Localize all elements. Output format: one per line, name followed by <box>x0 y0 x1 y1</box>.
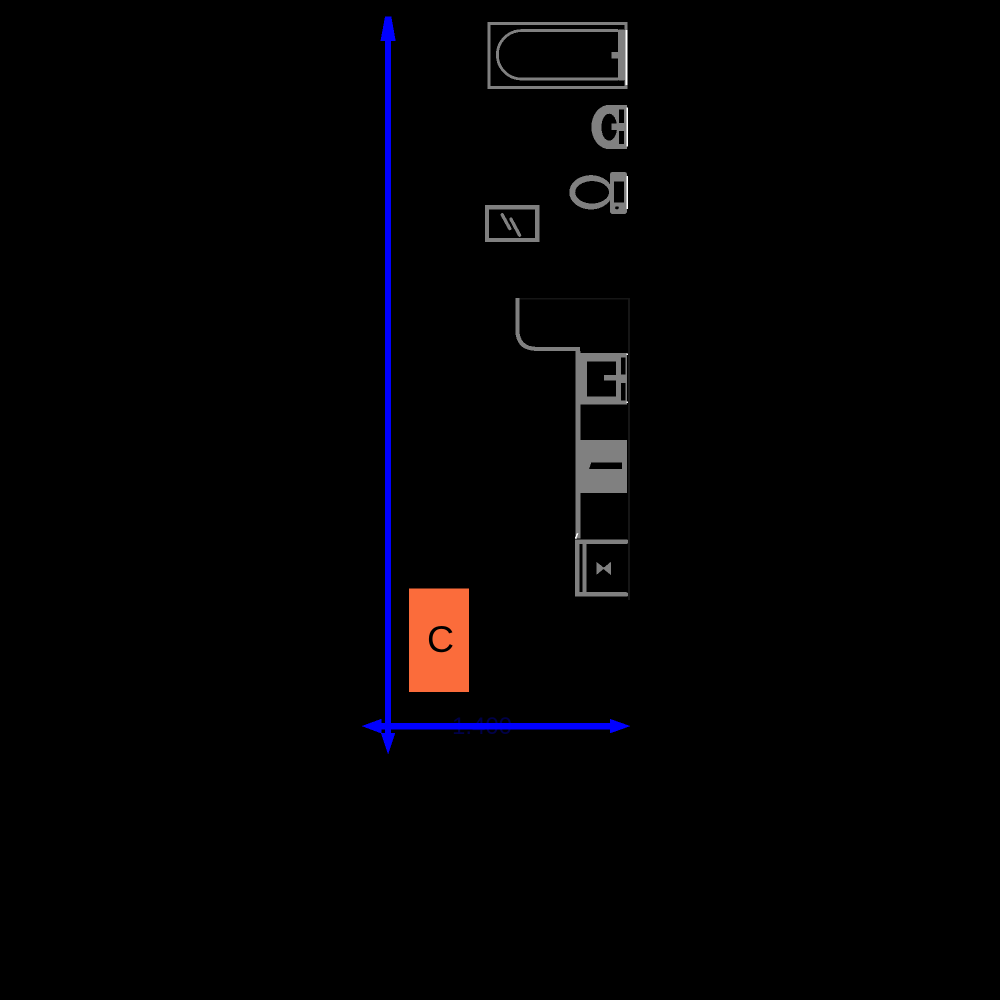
wash basin bowl <box>601 114 617 141</box>
electrical box <box>487 207 537 240</box>
wash basin wall white line <box>627 108 628 147</box>
washer motor symbol <box>596 562 604 575</box>
counter edge curve <box>517 298 580 349</box>
washer white tick <box>576 533 578 539</box>
Y axis up arrowhead <box>381 17 396 41</box>
stove handle slot <box>589 462 622 469</box>
cabinet C <box>409 588 469 692</box>
bathtub basin <box>497 31 618 79</box>
kitchen sink tap <box>604 375 621 380</box>
washer top bar <box>575 540 628 544</box>
faint wall outline top/right <box>516 299 629 600</box>
toilet tank inner <box>614 182 624 203</box>
electrical bolt <box>502 215 519 235</box>
bathtub outer rect <box>489 23 626 87</box>
bathtub deck <box>618 29 625 80</box>
wash basin bracket slot lower <box>619 131 624 144</box>
counter front edge line <box>575 351 580 539</box>
toilet tank <box>610 172 627 214</box>
wash basin body <box>591 105 627 149</box>
X axis left arrowhead <box>362 719 382 734</box>
kitchen sink body <box>580 353 627 404</box>
stove body <box>580 440 627 493</box>
toilet wall white line <box>627 176 628 209</box>
X axis right arrowhead <box>610 719 631 734</box>
kitchen sink basin <box>587 361 616 396</box>
washer bottom bar <box>575 592 628 596</box>
toilet bowl inner <box>575 181 609 203</box>
bathtub tap <box>611 52 618 59</box>
wash basin tap notch <box>612 123 618 130</box>
toilet button <box>615 206 619 209</box>
wash basin bracket slot upper <box>619 110 624 123</box>
washer left inner bar <box>582 544 586 592</box>
kitchen sink corner specks <box>626 353 627 354</box>
kitchen sink slot upper <box>621 358 625 375</box>
X axis shaft <box>381 723 611 729</box>
Y axis down arrowhead <box>381 733 395 754</box>
toilet bowl ring <box>569 175 612 209</box>
kitchen sink slot lower <box>621 383 625 401</box>
washer left outer bar <box>575 540 580 597</box>
bathtub wall white line <box>626 30 628 85</box>
svg-text:C: C <box>427 618 454 660</box>
Y axis shaft <box>385 40 391 733</box>
